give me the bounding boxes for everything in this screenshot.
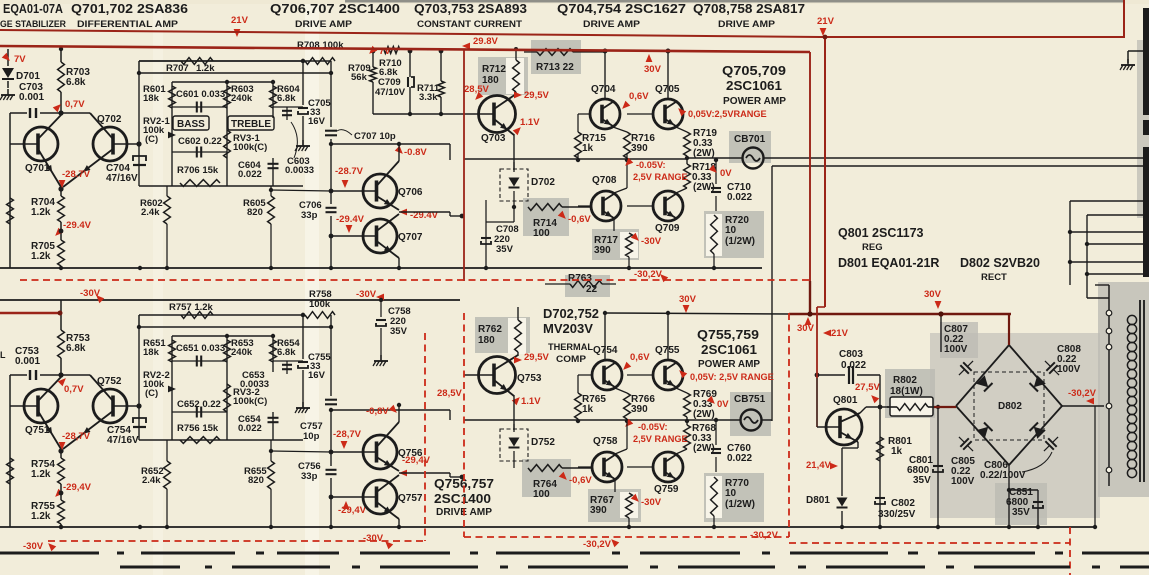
wire Q703 collector down to D702 <box>513 134 515 170</box>
svg-text:D801 EQA01-21R: D801 EQA01-21R <box>838 256 939 270</box>
svg-text:-30V: -30V <box>356 289 377 300</box>
svg-text:(1/2W): (1/2W) <box>725 499 755 510</box>
svg-text:-0.05V:: -0.05V: <box>636 160 666 170</box>
svg-text:Q703,753 2SA893: Q703,753 2SA893 <box>414 2 527 16</box>
svg-text:CONSTANT CURRENT: CONSTANT CURRENT <box>417 19 522 30</box>
wire tone box bottom edge <box>139 439 303 441</box>
svg-text:28,5V: 28,5V <box>464 84 489 95</box>
resistor R752 partial left edge <box>9 375 11 406</box>
wire Q754 emitter to R766 <box>615 388 627 393</box>
resistor R802 <box>890 397 933 416</box>
svg-text:2.4k: 2.4k <box>141 207 160 218</box>
svg-text:10p: 10p <box>303 431 320 442</box>
wire Q756 collector up <box>398 405 400 422</box>
svg-text:RECT: RECT <box>981 272 1007 283</box>
svg-text:R757 1.2k: R757 1.2k <box>169 302 214 313</box>
shaded patch C807 <box>940 322 978 358</box>
wire Q759 emitter to R768 <box>676 449 687 454</box>
svg-text:-29,4V: -29,4V <box>63 482 92 493</box>
circuit breaker CB751 <box>741 410 762 431</box>
resistor R604 <box>270 86 277 108</box>
ground below C758 <box>380 328 382 360</box>
node dots main column <box>59 47 63 51</box>
shaded patch R767 <box>588 489 641 522</box>
svg-text:-30,2V: -30,2V <box>1068 388 1097 399</box>
svg-text:Q758: Q758 <box>593 436 618 447</box>
node Q752 base <box>136 403 141 408</box>
resistor R654 <box>270 340 277 362</box>
svg-text:28,5V: 28,5V <box>437 388 462 399</box>
resistor R709 <box>372 51 374 67</box>
bridge diode bottom-left <box>976 423 992 439</box>
svg-text:240k: 240k <box>231 93 253 104</box>
wire second long line from bottom channel <box>772 165 1144 167</box>
bridge rectifier D802 <box>956 345 1062 465</box>
svg-text:18k: 18k <box>143 93 160 104</box>
resistor R605 <box>268 196 275 224</box>
svg-text:R712: R712 <box>482 64 506 75</box>
capacitor C807 <box>955 357 978 380</box>
capacitor C806 <box>1040 433 1063 456</box>
capacitor C760 <box>715 420 717 445</box>
svg-text:GE STABILIZER: GE STABILIZER <box>0 19 66 30</box>
wire Q757 emitter down <box>398 519 400 527</box>
svg-text:C802: C802 <box>891 498 915 509</box>
resistor R801 <box>879 407 881 527</box>
wire Q754 base bottom <box>578 374 592 376</box>
transistor Q752 <box>113 405 139 407</box>
transistor Q703 <box>464 113 494 115</box>
shaded patch R770 <box>704 473 764 522</box>
svg-text:390: 390 <box>594 245 611 256</box>
svg-text:D802 S2VB20: D802 S2VB20 <box>960 256 1040 270</box>
svg-text:0.001: 0.001 <box>15 356 40 367</box>
resistor R712 <box>506 58 524 94</box>
wire R762 to Q753 emitter <box>517 352 519 356</box>
wire 30V collector line bottom <box>605 313 789 314</box>
svg-text:-0,6V: -0,6V <box>568 214 591 225</box>
resistor R755 <box>58 500 65 524</box>
svg-text:D802: D802 <box>998 401 1022 412</box>
svg-text:-30V: -30V <box>641 236 662 247</box>
wire Q706 collector up <box>398 144 400 161</box>
svg-text:30V: 30V <box>679 294 697 305</box>
svg-text:Q751: Q751 <box>25 425 50 436</box>
shaded patch CB751 <box>730 392 771 436</box>
svg-text:THERMAL: THERMAL <box>548 342 593 353</box>
svg-text:35V: 35V <box>913 475 931 486</box>
svg-text:100V: 100V <box>1057 364 1081 375</box>
wire bridge negative output <box>1062 405 1104 407</box>
transformer terminal 4 <box>1106 403 1112 409</box>
wire Q702 base column down <box>139 186 141 268</box>
transistor Q704 <box>602 101 614 109</box>
svg-text:D702: D702 <box>531 177 555 188</box>
wire main column <box>60 49 62 62</box>
svg-text:2SC1400: 2SC1400 <box>434 491 491 506</box>
svg-text:47/16V: 47/16V <box>107 435 139 446</box>
svg-text:10: 10 <box>725 488 737 499</box>
svg-text:47/16V: 47/16V <box>106 173 138 184</box>
svg-text:Q755,759: Q755,759 <box>697 327 759 342</box>
wire red 30V bus to bridge <box>789 313 1011 316</box>
svg-text:2,5V RANGE: 2,5V RANGE <box>633 434 688 444</box>
svg-text:Q801 2SC1173: Q801 2SC1173 <box>838 226 924 240</box>
svg-text:Q707: Q707 <box>398 232 423 243</box>
svg-text:6.8k: 6.8k <box>277 93 296 104</box>
svg-text:-29,4V: -29,4V <box>402 455 431 466</box>
capacitor C851 <box>1037 490 1039 527</box>
capacitor C603 <box>273 106 303 108</box>
svg-text:-0.8V: -0.8V <box>404 147 427 158</box>
resistor R762 <box>508 318 526 354</box>
svg-text:0,05V:2,5VRANGE: 0,05V:2,5VRANGE <box>688 109 767 119</box>
wire Q755 emitter to R769 <box>676 388 687 393</box>
svg-text:0V: 0V <box>720 168 732 179</box>
resistor R603 <box>224 86 231 108</box>
shaded patch R763 <box>565 275 610 297</box>
svg-text:EQA01-07A: EQA01-07A <box>3 2 63 16</box>
wire Q759 base bottom <box>627 466 653 468</box>
svg-text:Q704,754 2SC1627: Q704,754 2SC1627 <box>557 2 686 16</box>
svg-text:Q708: Q708 <box>592 175 617 186</box>
capacitor C805 <box>955 433 978 456</box>
voltage 29.8V wire <box>515 44 517 49</box>
svg-text:REG: REG <box>862 242 883 253</box>
svg-text:-0.05V:: -0.05V: <box>638 422 668 432</box>
svg-text:C652 0.22: C652 0.22 <box>177 399 221 410</box>
svg-text:Q701,702 2SA836: Q701,702 2SA836 <box>71 2 188 16</box>
resistor R770 <box>706 476 722 518</box>
ground below C705 <box>302 116 304 145</box>
transistor Q758 <box>604 454 616 462</box>
resistor R711 <box>440 51 442 81</box>
transistor Q755 <box>665 362 677 370</box>
svg-text:0.022: 0.022 <box>727 453 752 464</box>
svg-text:DRIVE AMP: DRIVE AMP <box>583 19 641 30</box>
svg-text:-0,6V: -0,6V <box>569 475 592 486</box>
svg-text:10: 10 <box>725 225 737 236</box>
resistor R715 <box>575 132 582 158</box>
svg-text:18k: 18k <box>143 347 160 358</box>
wire red dashed output box bottom <box>464 536 789 538</box>
svg-text:C803: C803 <box>839 349 863 360</box>
wire Q756 base line left <box>271 451 331 452</box>
svg-text:21V: 21V <box>831 328 849 339</box>
svg-text:Q755: Q755 <box>655 345 680 356</box>
resistor R652 <box>164 461 171 489</box>
wire red dashed bottom box bottom <box>48 540 423 542</box>
capacitor C801 <box>937 407 939 527</box>
capacitor C707 <box>330 61 332 127</box>
svg-text:820: 820 <box>247 207 263 218</box>
svg-text:DRIVE AMP: DRIVE AMP <box>295 19 353 30</box>
resistor R767 <box>620 492 638 518</box>
svg-text:-28,7V: -28,7V <box>62 431 91 442</box>
svg-text:R706 15k: R706 15k <box>177 165 219 176</box>
svg-text:-0,8V: -0,8V <box>366 406 389 417</box>
svg-text:0,6V: 0,6V <box>629 91 649 102</box>
svg-text:TREBLE: TREBLE <box>231 119 271 130</box>
node -29.4V <box>60 222 62 240</box>
wire Q709 emitter to R718 <box>676 188 687 193</box>
svg-text:29,5V: 29,5V <box>524 90 549 101</box>
svg-text:POWER AMP: POWER AMP <box>723 95 786 107</box>
wire Q704 base <box>578 113 590 115</box>
ground below D701 <box>7 89 9 95</box>
svg-text:L: L <box>0 350 6 360</box>
wire red box output top left <box>463 49 465 281</box>
shaded patch R764 <box>522 459 571 497</box>
svg-text:(1/2W): (1/2W) <box>725 236 755 247</box>
svg-text:0,6V: 0,6V <box>630 352 650 363</box>
svg-text:0.22/100V: 0.22/100V <box>980 470 1026 481</box>
svg-text:0.022: 0.022 <box>238 169 262 180</box>
transformer winding <box>1127 315 1136 324</box>
wire Q758/Q759 emitters to R767 <box>614 480 616 492</box>
zener diode D801 <box>857 442 859 448</box>
svg-text:Q705: Q705 <box>655 84 680 95</box>
wire mid rail -30V <box>0 299 460 301</box>
resistor R719 <box>684 132 691 156</box>
node line mid <box>464 158 687 160</box>
wire Q709 base <box>627 205 653 207</box>
wire Q758 connections bottom <box>577 419 579 467</box>
svg-text:100V: 100V <box>944 344 968 355</box>
svg-text:27,5V: 27,5V <box>855 382 880 393</box>
capacitor C706 <box>330 191 332 204</box>
wire red 30V bus <box>0 46 810 52</box>
wire Q752 base column down <box>139 440 141 527</box>
svg-text:6.8k: 6.8k <box>277 347 296 358</box>
transistor Q705 <box>665 101 677 109</box>
svg-text:0.0033: 0.0033 <box>240 379 269 390</box>
wire top channel bottom rail <box>0 267 762 269</box>
svg-text:330/25V: 330/25V <box>878 509 916 520</box>
wire Q708/Q709 emitters to R717 <box>613 219 615 231</box>
resistor R720 <box>706 214 722 256</box>
transistor Q801 regulator <box>817 426 840 428</box>
svg-text:-30,2V: -30,2V <box>583 539 612 550</box>
wire Q703 base line <box>373 113 464 115</box>
transformer terminal 5 <box>1106 467 1112 473</box>
wire red solid bottom channel left <box>0 312 60 314</box>
label TREBLE <box>228 116 274 130</box>
svg-text:R713 22: R713 22 <box>536 62 574 73</box>
resistor R716 <box>624 132 631 158</box>
wire Q753 collector down to D752 <box>513 395 515 430</box>
svg-text:C707 10p: C707 10p <box>354 131 396 142</box>
zener diode D701 <box>7 49 9 66</box>
wire D702 bottom down to rail <box>513 207 515 222</box>
node 0V wire to CB701 <box>686 156 688 164</box>
svg-text:35V: 35V <box>390 326 408 337</box>
svg-text:2,5V RANGE: 2,5V RANGE <box>633 172 688 182</box>
svg-text:Q705,709: Q705,709 <box>722 63 786 78</box>
capacitor C757 <box>330 315 332 396</box>
svg-text:30V: 30V <box>644 64 662 75</box>
svg-text:BASS: BASS <box>177 119 205 130</box>
capacitor C710 <box>715 160 717 184</box>
transistor Q759 <box>665 454 677 462</box>
capacitor C755 <box>298 361 308 363</box>
diode D752 <box>500 429 528 461</box>
svg-text:180: 180 <box>478 335 495 346</box>
svg-text:1k: 1k <box>582 143 594 154</box>
svg-text:0,7V: 0,7V <box>65 99 85 110</box>
resistor R769 <box>684 393 691 417</box>
svg-text:22: 22 <box>586 284 598 295</box>
dashed separator row 2 <box>120 566 180 569</box>
wire Q704 emitter to R716 <box>613 127 627 132</box>
wire tone box verticals <box>171 82 173 186</box>
wire bottom channel rail <box>0 526 1095 528</box>
wire red 21V top line <box>0 0 1124 37</box>
shaded patch R762 <box>475 317 530 353</box>
svg-text:0.022: 0.022 <box>727 192 752 203</box>
transistor Q707 <box>331 235 377 237</box>
svg-text:R762: R762 <box>478 324 502 335</box>
shaded patch bridge rectifier area <box>930 333 1100 518</box>
svg-text:390: 390 <box>631 404 648 415</box>
svg-text:Q759: Q759 <box>654 484 679 495</box>
resistor R765 <box>575 393 582 419</box>
capacitor C704 <box>133 164 146 166</box>
svg-text:30V: 30V <box>924 289 942 300</box>
wire red dashed bottom box right <box>424 333 426 541</box>
transformer winding top leads <box>1109 312 1123 314</box>
svg-text:D702,752: D702,752 <box>543 307 599 321</box>
svg-text:DIFFERENTIAL AMP: DIFFERENTIAL AMP <box>77 19 179 30</box>
svg-text:240k: 240k <box>231 347 253 358</box>
transistor Q757 <box>331 496 377 498</box>
svg-text:Q703: Q703 <box>481 133 506 144</box>
wire red dashed top channel bottom <box>20 279 810 281</box>
resistor R714 <box>528 204 562 211</box>
svg-text:POWER AMP: POWER AMP <box>698 358 760 370</box>
wire Q705 base <box>627 113 653 115</box>
svg-text:Q706: Q706 <box>398 187 423 198</box>
svg-text:MV203V: MV203V <box>543 322 594 336</box>
svg-text:-30,2V: -30,2V <box>750 530 779 541</box>
wire tone box verticals bottom <box>171 336 173 440</box>
svg-text:1.2k: 1.2k <box>31 469 51 480</box>
transformer terminal 2 <box>1106 328 1112 334</box>
wire tone box second line bottom <box>139 326 331 328</box>
svg-text:6.8k: 6.8k <box>66 77 86 88</box>
svg-text:0,05V: 2,5V RANGE: 0,05V: 2,5V RANGE <box>690 372 774 382</box>
label BASS <box>173 116 209 130</box>
wire Q704 Q705 collectors to bus <box>604 50 606 99</box>
svg-text:33p: 33p <box>301 210 318 221</box>
wire Q756-Q757 node to red bus <box>399 472 450 474</box>
svg-text:47/10V: 47/10V <box>375 87 406 98</box>
svg-text:Q702: Q702 <box>97 114 122 125</box>
svg-text:16V: 16V <box>308 370 326 381</box>
diode D702 <box>500 169 528 201</box>
transistor Q702 <box>113 143 139 145</box>
svg-text:18(1W): 18(1W) <box>890 386 923 397</box>
svg-text:-30,2V: -30,2V <box>634 269 663 280</box>
svg-text:0.001: 0.001 <box>19 92 44 103</box>
shaded patch transformer <box>1098 282 1149 497</box>
wire R764 to Q758 base <box>562 467 592 469</box>
svg-text:-29.4V: -29.4V <box>63 220 92 231</box>
svg-text:-28.7V: -28.7V <box>335 166 364 177</box>
svg-text:Q704: Q704 <box>591 84 616 95</box>
resistor R753 <box>58 330 65 358</box>
svg-text:R756 15k: R756 15k <box>177 423 219 434</box>
svg-text:1.1V: 1.1V <box>520 117 540 128</box>
svg-text:390: 390 <box>590 505 607 516</box>
transformer secondary lead <box>1108 285 1110 486</box>
transistor Q753 <box>464 374 494 376</box>
wire Q706 base line left <box>271 190 331 191</box>
wire R714 to Q708 base <box>562 206 591 208</box>
wire Q706-Q707 node to red bus <box>399 211 450 213</box>
resistor R710 in bus <box>384 47 400 54</box>
svg-text:100k(C): 100k(C) <box>233 142 267 153</box>
svg-text:Q706,707 2SC1400: Q706,707 2SC1400 <box>270 2 400 16</box>
wire bridge bottom down <box>1008 465 1010 490</box>
capacitor C705 <box>298 107 308 109</box>
ground below C755 <box>302 370 304 407</box>
svg-text:1k: 1k <box>891 446 903 457</box>
node Q702 base <box>136 141 141 146</box>
svg-text:Q757: Q757 <box>398 493 423 504</box>
dashed separator row 1 <box>0 552 99 555</box>
svg-text:2.4k: 2.4k <box>142 475 161 486</box>
wire output line to transformer <box>687 157 742 159</box>
svg-text:35V: 35V <box>496 244 514 255</box>
output tap ladder <box>1070 200 1144 202</box>
resistor R764 <box>528 465 562 472</box>
svg-text:820: 820 <box>248 475 264 486</box>
svg-text:COMP: COMP <box>556 354 587 365</box>
svg-text:DRIVE AMP: DRIVE AMP <box>718 19 776 30</box>
svg-text:0.022: 0.022 <box>238 423 262 434</box>
resistor R708 <box>305 58 335 65</box>
wire R708 line <box>139 60 331 62</box>
wire rail to R763 <box>627 266 631 270</box>
transformer terminal 3 <box>1106 344 1112 350</box>
svg-text:0.0033: 0.0033 <box>285 165 314 176</box>
resistor R653 <box>224 340 231 362</box>
svg-text:100k(C): 100k(C) <box>233 396 267 407</box>
transistor Q751 <box>10 405 38 407</box>
resistor R704 <box>60 189 62 196</box>
bridge diode top-right <box>1030 375 1046 391</box>
bridge diode bottom-right <box>1030 423 1046 439</box>
svg-text:16V: 16V <box>308 116 326 127</box>
wire Q707 emitter down <box>398 258 400 268</box>
svg-text:-30V: -30V <box>23 541 44 552</box>
svg-text:CB751: CB751 <box>734 394 766 405</box>
wire red dashed output box right <box>788 313 790 537</box>
svg-text:35V: 35V <box>1012 507 1030 518</box>
capacitor C808 <box>1041 357 1064 380</box>
svg-text:33p: 33p <box>301 471 318 482</box>
svg-text:0V: 0V <box>717 399 729 410</box>
shaded patch R714 <box>523 198 569 236</box>
resistor R718 <box>684 164 691 188</box>
wire primary top <box>1128 50 1143 52</box>
transistor Q754 <box>604 362 616 370</box>
shaded patch R712 <box>478 57 528 95</box>
capacitor C709 electrolytic <box>409 51 411 77</box>
wire Q755 base bottom <box>627 374 653 376</box>
svg-text:7V: 7V <box>14 54 26 65</box>
